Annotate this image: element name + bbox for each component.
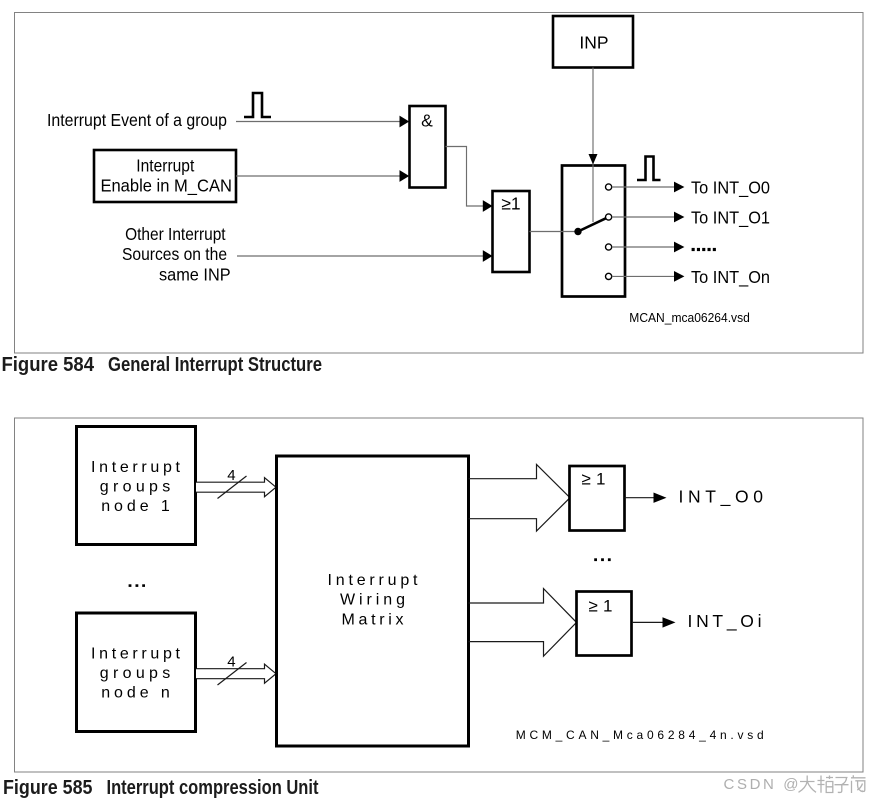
svg-text:Other Interrupt: Other Interrupt xyxy=(125,224,226,244)
arrowhead INP into mux xyxy=(589,154,598,165)
svg-text:MCM_CAN_Mca06284_4n.vsd: MCM_CAN_Mca06284_4n.vsd xyxy=(516,728,764,742)
svg-text:Interrupt compression Unit: Interrupt compression Unit xyxy=(107,777,319,799)
arrowhead On xyxy=(674,271,684,282)
OR gate outi xyxy=(577,592,632,656)
arrowhead into OR input 1 xyxy=(483,200,493,212)
svg-text:Figure 585: Figure 585 xyxy=(3,777,93,799)
svg-text:General Interrupt Structure: General Interrupt Structure xyxy=(108,354,322,376)
arrowhead O2 xyxy=(674,242,684,253)
arrowhead INT_Oi xyxy=(663,617,676,627)
arrowhead O1 xyxy=(674,212,684,223)
box: Interrupt groups node n xyxy=(77,613,196,732)
svg-text:To INT_On: To INT_On xyxy=(691,267,770,288)
label dots row xyxy=(692,248,716,251)
matrix outputs to big arrow 1 xyxy=(469,464,571,531)
svg-text:&: & xyxy=(421,111,433,131)
wire: event to AND gate xyxy=(236,121,400,123)
arrowhead O0 xyxy=(674,182,684,193)
bus slash 2 xyxy=(218,663,247,686)
svg-text:Interrupt Event of a group: Interrupt Event of a group xyxy=(47,110,227,130)
OR gate xyxy=(493,191,530,272)
dots between OR gates xyxy=(594,558,611,561)
switch common dot xyxy=(574,228,581,235)
svg-text:INP: INP xyxy=(579,32,608,52)
wire: On out xyxy=(612,275,675,277)
svg-text:Interrupt: Interrupt xyxy=(328,572,419,589)
wire: enable box to AND gate xyxy=(236,175,400,177)
svg-text:To INT_O1: To INT_O1 xyxy=(691,208,770,229)
svg-text:Interrupt: Interrupt xyxy=(91,459,181,476)
bus arrow node n to matrix xyxy=(196,664,276,683)
svg-text:Sources on the: Sources on the xyxy=(122,244,227,264)
frame figure 584 xyxy=(15,13,864,354)
box: Interrupt Enable in M_CAN xyxy=(94,150,236,202)
arrowhead into OR input 2 xyxy=(483,250,493,262)
OR gate out0 xyxy=(570,466,625,531)
wire: INP down into mux xyxy=(592,68,594,223)
arrowhead into AND input 1 xyxy=(400,116,410,128)
matrix outputs to big arrow 2 xyxy=(469,589,577,657)
wire: O2 out xyxy=(612,246,675,248)
pulse symbol P1 xyxy=(244,93,271,117)
wire: OR output to switch common xyxy=(530,231,579,233)
pulse symbol P2 xyxy=(637,157,661,181)
svg-text:INT_Oi: INT_Oi xyxy=(688,611,762,632)
arrowhead into AND input 2 xyxy=(400,170,410,182)
svg-text:Enable in M_CAN: Enable in M_CAN xyxy=(100,176,232,197)
wire: other sources to OR input 2 xyxy=(237,255,483,257)
svg-text:INT_O0: INT_O0 xyxy=(679,487,764,508)
wire OR0 to INT_O0 xyxy=(625,497,655,499)
svg-text:Interrupt: Interrupt xyxy=(91,645,181,662)
box: Interrupt groups node 1 xyxy=(77,427,196,545)
bus slash 1 xyxy=(218,476,247,499)
svg-text:To INT_O0: To INT_O0 xyxy=(691,178,770,199)
bus arrow node1 to matrix xyxy=(196,478,276,497)
output contact circle O2 xyxy=(606,244,612,250)
switch lever xyxy=(578,218,606,231)
output contact circle O1 xyxy=(606,214,612,220)
svg-text:≥1: ≥1 xyxy=(501,194,520,214)
svg-text:same INP: same INP xyxy=(159,265,231,285)
frame figure 585 xyxy=(15,418,864,772)
svg-text:Figure 584: Figure 584 xyxy=(2,354,95,376)
wire: O0 out xyxy=(612,186,675,188)
svg-text:4: 4 xyxy=(227,467,235,484)
wire: O1 out xyxy=(612,216,675,218)
svg-text:Interrupt: Interrupt xyxy=(136,155,194,175)
svg-text:CSDN @: CSDN @ xyxy=(724,776,799,793)
dots between node boxes xyxy=(129,584,145,587)
svg-text:MCAN_mca06264.vsd: MCAN_mca06264.vsd xyxy=(629,310,750,325)
wire ORi to INT_Oi xyxy=(632,621,664,623)
Interrupt Wiring Matrix box xyxy=(277,456,469,746)
arrowhead INT_O0 xyxy=(654,493,667,503)
AND gate xyxy=(410,106,446,188)
output contact circle On xyxy=(606,273,612,279)
multiplexer box xyxy=(562,166,625,297)
wire: AND output to OR input 1 xyxy=(446,147,484,207)
output contact circle O0 xyxy=(606,184,612,190)
watermark hanzi (drawn) xyxy=(799,775,866,793)
svg-text:4: 4 xyxy=(227,653,235,670)
INP box xyxy=(553,16,633,68)
